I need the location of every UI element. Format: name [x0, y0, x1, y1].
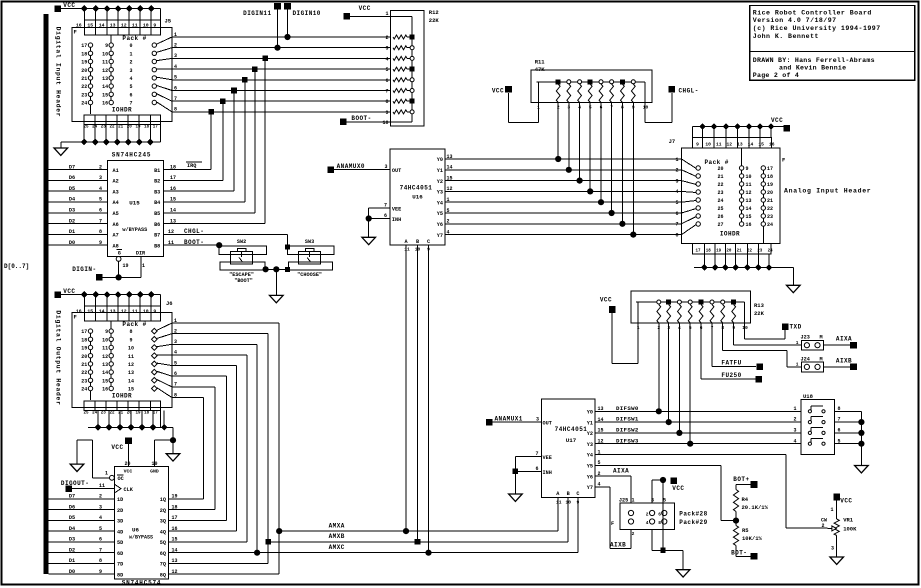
jumper J24 AIXB — [796, 356, 851, 372]
svg-text:13: 13 — [128, 370, 134, 376]
node DIGIN- enable — [72, 257, 145, 281]
svg-text:3: 3 — [129, 68, 132, 74]
svg-text:24: 24 — [92, 411, 98, 415]
svg-text:1: 1 — [796, 340, 799, 346]
svg-text:1: 1 — [830, 507, 833, 513]
svg-text:SN74HC245: SN74HC245 — [112, 152, 152, 159]
svg-text:2: 2 — [99, 164, 102, 170]
wire AMXA bus — [276, 522, 558, 534]
svg-text:D5: D5 — [69, 186, 75, 192]
svg-text:16: 16 — [769, 141, 775, 147]
svg-text:and Kevin Bennie: and Kevin Bennie — [779, 64, 846, 71]
wire U17 VEE/INH to ground — [513, 451, 542, 494]
svg-text:VCC: VCC — [492, 88, 504, 95]
node DIGIN11 — [243, 3, 281, 51]
svg-text:B: B — [416, 239, 419, 245]
svg-text:23: 23 — [81, 92, 87, 98]
svg-text:17: 17 — [767, 166, 773, 172]
svg-text:3Q: 3Q — [160, 519, 166, 525]
svg-text:6: 6 — [385, 78, 388, 84]
svg-text:10: 10 — [643, 105, 649, 111]
wire R13 pin8 to J24 — [723, 323, 802, 367]
svg-text:20: 20 — [717, 166, 723, 172]
svg-text:11: 11 — [132, 308, 138, 314]
svg-text:Digital Output Header: Digital Output Header — [55, 310, 62, 405]
wire R13 pin9 to J23 — [734, 323, 802, 345]
svg-text:10: 10 — [143, 308, 149, 314]
svg-text:22K: 22K — [429, 17, 440, 24]
svg-text:D[0..7]: D[0..7] — [4, 263, 29, 270]
wire U17 Y6 AIXA to J25 — [595, 467, 631, 503]
svg-text:2Q: 2Q — [160, 508, 166, 514]
svg-text:2D: 2D — [117, 508, 123, 514]
svg-text:D7: D7 — [69, 494, 75, 500]
node DIGIN10 — [284, 3, 321, 40]
svg-text:1: 1 — [129, 51, 132, 57]
svg-text:19: 19 — [172, 494, 178, 500]
svg-text:47K: 47K — [535, 66, 546, 73]
svg-text:10: 10 — [746, 174, 752, 180]
svg-text:5Q: 5Q — [160, 540, 166, 546]
node TXD — [744, 323, 801, 339]
svg-text:20: 20 — [726, 250, 732, 254]
svg-text:19: 19 — [135, 411, 141, 415]
svg-text:B2: B2 — [154, 179, 160, 185]
wire J7 bottom pins to ground — [694, 254, 794, 285]
svg-text:Y3: Y3 — [587, 442, 593, 448]
svg-text:14: 14 — [99, 22, 105, 28]
svg-text:16: 16 — [102, 387, 108, 393]
svg-text:U18: U18 — [803, 393, 814, 400]
svg-text:B8: B8 — [154, 243, 160, 249]
svg-text:16: 16 — [746, 222, 752, 228]
svg-text:24: 24 — [717, 198, 723, 204]
svg-text:IRQ: IRQ — [187, 163, 196, 169]
label Analog Input Header — [784, 187, 871, 194]
svg-text:16: 16 — [172, 526, 178, 532]
svg-text:G: G — [118, 250, 121, 256]
svg-text:J23: J23 — [801, 335, 810, 341]
connector J5 digital input header — [72, 18, 177, 130]
svg-text:OC: OC — [118, 476, 124, 482]
wire R11 pull-ups to analog lines — [555, 103, 636, 238]
svg-text:6: 6 — [675, 211, 678, 217]
connector J7 analog input header — [669, 138, 786, 255]
svg-text:14: 14 — [102, 370, 108, 376]
svg-text:AMXA: AMXA — [329, 522, 345, 529]
svg-text:3: 3 — [831, 546, 834, 552]
svg-text:R5: R5 — [742, 527, 749, 534]
svg-text:J7: J7 — [669, 138, 676, 145]
svg-text:23: 23 — [81, 378, 87, 384]
svg-text:D5: D5 — [69, 515, 75, 521]
svg-text:20: 20 — [81, 68, 87, 74]
svg-text:15: 15 — [172, 537, 178, 543]
label AMXC bus — [254, 544, 432, 556]
ground (U16) — [362, 237, 376, 244]
svg-text:10: 10 — [382, 120, 388, 126]
svg-text:U15: U15 — [129, 200, 140, 207]
svg-text:13: 13 — [102, 76, 108, 82]
svg-text:10: 10 — [102, 51, 108, 57]
svg-text:Y0: Y0 — [587, 410, 593, 416]
svg-text:B1: B1 — [154, 168, 160, 174]
svg-text:U16: U16 — [412, 194, 423, 201]
svg-text:U6: U6 — [132, 526, 139, 533]
svg-text:AMXC: AMXC — [329, 544, 345, 551]
power VCC (R11) — [492, 86, 539, 123]
svg-text:18: 18 — [81, 337, 87, 343]
svg-text:Version 4.0 7/18/97: Version 4.0 7/18/97 — [753, 17, 837, 24]
svg-text:18: 18 — [767, 174, 773, 180]
svg-text:5: 5 — [99, 197, 102, 203]
svg-text:11: 11 — [132, 22, 138, 28]
resistor R4 20.1K/1% — [733, 490, 769, 526]
svg-text:VCC: VCC — [840, 498, 852, 505]
svg-text:DIGIN11: DIGIN11 — [243, 10, 271, 17]
svg-text:19: 19 — [81, 60, 87, 66]
svg-text:3D: 3D — [117, 519, 123, 525]
svg-text:VEE: VEE — [543, 455, 552, 461]
IC U17 74HC4051 — [541, 399, 603, 505]
svg-text:4: 4 — [675, 189, 678, 195]
wire U6 GND pin — [155, 440, 173, 467]
svg-text:Y3: Y3 — [437, 190, 443, 196]
wire J5 bottom pins to ground — [61, 125, 161, 148]
svg-text:23: 23 — [717, 190, 723, 196]
svg-text:8: 8 — [99, 558, 102, 564]
svg-text:ANAMUX0: ANAMUX0 — [337, 163, 365, 170]
power VCC (J5 pull-up rail) — [55, 2, 76, 12]
power VCC (J6 rail) — [55, 288, 76, 298]
svg-text:BOT+: BOT+ — [733, 476, 749, 483]
svg-text:J6: J6 — [166, 300, 173, 307]
svg-text:20: 20 — [767, 190, 773, 196]
ground (U17) — [509, 494, 523, 501]
svg-text:DIGOUT-: DIGOUT- — [61, 480, 89, 487]
svg-text:R11: R11 — [535, 58, 546, 65]
svg-text:4: 4 — [129, 76, 132, 82]
wire D bus to U6 inputs — [49, 494, 115, 575]
switch U18 DIP — [793, 393, 864, 466]
svg-text:1: 1 — [675, 157, 678, 163]
svg-text:8: 8 — [385, 99, 388, 105]
svg-text:7D: 7D — [117, 562, 123, 568]
svg-text:C: C — [427, 239, 430, 245]
wire J6 bottom pins to ground rail — [88, 411, 176, 454]
svg-text:A5: A5 — [113, 211, 119, 217]
svg-text:John K. Bennett: John K. Bennett — [753, 33, 819, 40]
wire U16 address A B C — [406, 245, 429, 553]
svg-text:9: 9 — [105, 43, 108, 49]
svg-text:5: 5 — [675, 200, 678, 206]
svg-text:19: 19 — [716, 250, 722, 254]
svg-text:Y7: Y7 — [437, 233, 443, 239]
wire U6 OC to ground — [77, 440, 114, 480]
svg-text:13: 13 — [737, 141, 743, 147]
svg-text:22: 22 — [717, 182, 723, 188]
wire VCC rail to J5 top pins — [61, 5, 160, 20]
svg-text:22: 22 — [747, 250, 753, 254]
svg-text:23: 23 — [101, 411, 107, 415]
switch SW2 ESCAPE/BOOT — [219, 239, 267, 284]
wire J5 pins 1-8 to R12 — [172, 37, 391, 112]
svg-text:12: 12 — [172, 569, 178, 575]
svg-text:6: 6 — [658, 512, 661, 518]
svg-text:VCC: VCC — [63, 288, 75, 295]
svg-text:INH: INH — [392, 217, 401, 223]
svg-text:27: 27 — [717, 222, 723, 228]
svg-text:F: F — [611, 521, 614, 527]
svg-text:6: 6 — [384, 213, 387, 219]
wire J25 to ground — [652, 480, 683, 570]
svg-text:11: 11 — [99, 483, 105, 489]
svg-text:9: 9 — [385, 110, 388, 116]
svg-text:18: 18 — [170, 164, 176, 170]
wire AMXB bus — [265, 533, 568, 544]
svg-text:9: 9 — [153, 308, 156, 314]
resistor R5 10K/1% — [733, 526, 762, 557]
svg-text:A7: A7 — [113, 233, 119, 239]
svg-text:Y6: Y6 — [587, 474, 593, 480]
node FU250 — [701, 323, 762, 382]
label IRQ — [186, 162, 202, 169]
svg-text:6D: 6D — [117, 551, 123, 557]
svg-text:3: 3 — [384, 164, 387, 170]
svg-text:D4: D4 — [69, 526, 75, 532]
wire U17 Y5 to BOT divider — [595, 465, 736, 520]
svg-text:4Q: 4Q — [160, 529, 166, 535]
svg-text:Pack #: Pack # — [705, 159, 729, 166]
svg-text:AIXA: AIXA — [836, 336, 852, 343]
svg-text:14: 14 — [99, 308, 105, 314]
svg-text:M: M — [820, 356, 823, 362]
svg-text:VCC: VCC — [359, 5, 371, 12]
connector J25 — [611, 497, 708, 537]
svg-text:12: 12 — [121, 22, 127, 28]
ground (J5) — [54, 148, 68, 155]
svg-text:22: 22 — [81, 370, 87, 376]
svg-text:21: 21 — [118, 125, 124, 129]
connector J6 digital output header — [72, 300, 177, 415]
svg-text:10: 10 — [102, 337, 108, 343]
node BOOT- (R12) — [340, 115, 391, 125]
svg-text:3: 3 — [385, 46, 388, 52]
svg-text:12: 12 — [121, 308, 127, 314]
svg-text:1: 1 — [631, 497, 634, 503]
svg-text:VCC: VCC — [771, 117, 783, 124]
wire VCC rail to J7 top pins — [693, 123, 784, 137]
resistor pack R12 22K — [382, 9, 439, 126]
svg-text:17: 17 — [153, 125, 159, 129]
svg-text:VCC: VCC — [600, 297, 612, 304]
node ANAMUX1 — [486, 415, 542, 425]
svg-text:14: 14 — [746, 206, 752, 212]
svg-text:VCC: VCC — [672, 485, 684, 492]
svg-text:74HC4051: 74HC4051 — [555, 426, 588, 433]
svg-text:15: 15 — [87, 22, 93, 28]
svg-text:9: 9 — [746, 166, 749, 172]
svg-text:Pack#29: Pack#29 — [679, 519, 707, 526]
svg-text:D6: D6 — [69, 175, 75, 181]
wire U6 outputs to J6 pins / AMX bus — [168, 323, 578, 575]
svg-text:18: 18 — [144, 411, 150, 415]
svg-text:Y2: Y2 — [587, 431, 593, 437]
svg-text:24: 24 — [768, 250, 774, 254]
svg-text:Digital Input Header: Digital Input Header — [55, 27, 62, 118]
ground (J7) — [787, 285, 801, 292]
svg-text:BOOT-: BOOT- — [351, 115, 371, 122]
svg-text:D1: D1 — [69, 229, 75, 235]
svg-text:74HC4051: 74HC4051 — [400, 184, 433, 191]
svg-text:FATFU: FATFU — [721, 360, 741, 367]
wire U15 outputs B1-B6 to J5 pins 8-3 — [164, 58, 266, 224]
svg-text:w/BYPASS: w/BYPASS — [129, 534, 153, 540]
svg-text:20.1K/1%: 20.1K/1% — [742, 504, 769, 511]
svg-text:7: 7 — [384, 202, 387, 208]
svg-text:12: 12 — [128, 362, 134, 368]
svg-text:Y0: Y0 — [437, 157, 443, 163]
svg-text:5: 5 — [99, 526, 102, 532]
node FATFU — [712, 323, 763, 370]
svg-text:DIGIN-: DIGIN- — [72, 266, 96, 273]
svg-text:INH: INH — [543, 470, 552, 476]
svg-text:13: 13 — [102, 362, 108, 368]
svg-text:13: 13 — [170, 218, 176, 224]
svg-text:AIXB: AIXB — [610, 541, 626, 548]
svg-text:11: 11 — [404, 247, 410, 253]
svg-text:14: 14 — [172, 547, 178, 553]
ground (U18) — [855, 466, 869, 473]
svg-text:AIXB: AIXB — [836, 357, 852, 364]
svg-text:18: 18 — [706, 250, 712, 254]
svg-text:SN74HC574: SN74HC574 — [122, 579, 162, 586]
svg-text:6: 6 — [129, 92, 132, 98]
svg-text:VCC: VCC — [124, 469, 133, 475]
svg-text:15: 15 — [758, 141, 764, 147]
svg-text:12: 12 — [746, 190, 752, 196]
svg-text:Y4: Y4 — [587, 453, 593, 459]
svg-text:15: 15 — [87, 308, 93, 314]
svg-text:11: 11 — [556, 499, 562, 505]
svg-text:Pack #: Pack # — [122, 321, 146, 328]
svg-text:10: 10 — [742, 325, 748, 331]
svg-text:J25: J25 — [619, 497, 628, 503]
svg-text:2: 2 — [99, 494, 102, 500]
svg-text:10: 10 — [143, 22, 149, 28]
svg-text:20: 20 — [81, 354, 87, 360]
data bus D[0..7] — [4, 14, 49, 574]
svg-text:7Q: 7Q — [160, 562, 166, 568]
svg-text:Y5: Y5 — [437, 211, 443, 217]
svg-text:1: 1 — [793, 406, 796, 412]
node DIGOUT- clock — [61, 480, 115, 492]
node BOT+ — [733, 476, 757, 490]
svg-text:17: 17 — [81, 329, 87, 335]
svg-text:M: M — [820, 335, 823, 341]
svg-text:4: 4 — [99, 515, 102, 521]
svg-text:7: 7 — [675, 222, 678, 228]
svg-text:DIFSW1: DIFSW1 — [616, 416, 639, 423]
wire R13 pull-ups to DIFSW lines — [656, 323, 694, 447]
svg-text:B: B — [567, 491, 570, 497]
wire U16 VEE/INH to ground — [366, 202, 390, 237]
svg-text:3: 3 — [99, 175, 102, 181]
svg-text:24: 24 — [81, 101, 87, 107]
svg-text:F: F — [74, 29, 77, 36]
svg-text:25: 25 — [717, 206, 723, 212]
svg-text:21: 21 — [118, 411, 124, 415]
svg-text:VR1: VR1 — [843, 517, 854, 524]
svg-text:D0: D0 — [69, 240, 75, 246]
svg-text:4: 4 — [99, 186, 102, 192]
wire switch commons to ground — [263, 266, 291, 295]
svg-text:15: 15 — [102, 92, 108, 98]
svg-text:D7: D7 — [69, 164, 75, 170]
wire U17 Y0-Y3 DIFSW lines to U18 — [595, 405, 801, 444]
svg-text:20: 20 — [127, 125, 133, 129]
svg-text:5: 5 — [129, 84, 132, 90]
node BOT- — [731, 549, 757, 559]
node junctions J5 wires — [208, 56, 268, 115]
svg-text:IOHDR: IOHDR — [112, 392, 132, 399]
svg-text:2: 2 — [793, 417, 796, 423]
svg-text:5D: 5D — [117, 540, 123, 546]
svg-text:B7: B7 — [154, 233, 160, 239]
svg-text:15: 15 — [746, 214, 752, 220]
svg-text:0: 0 — [129, 43, 132, 49]
svg-text:26: 26 — [717, 214, 723, 220]
ground (J25) — [676, 570, 690, 577]
svg-text:2: 2 — [129, 60, 132, 66]
wire D bus to U15 inputs — [49, 164, 108, 246]
resistor pack R13 22K — [631, 291, 765, 331]
svg-text:R4: R4 — [742, 496, 749, 503]
power VCC (J25) — [652, 477, 684, 503]
svg-text:24: 24 — [767, 222, 773, 228]
jumper J23 AIXA — [796, 335, 851, 350]
svg-text:8: 8 — [99, 229, 102, 235]
svg-text:13: 13 — [172, 558, 178, 564]
ground (VR1) — [830, 557, 844, 564]
svg-text:D3: D3 — [69, 208, 75, 214]
svg-text:4: 4 — [385, 56, 388, 62]
svg-text:Y7: Y7 — [587, 485, 593, 491]
svg-text:Pack #: Pack # — [122, 35, 146, 42]
svg-text:3: 3 — [793, 428, 796, 434]
node AIXB terminal — [836, 357, 857, 370]
svg-text:18: 18 — [172, 504, 178, 510]
svg-text:6: 6 — [99, 537, 102, 543]
resistor pack R11 47K — [531, 58, 652, 110]
IC U6 SN74HC574 — [115, 461, 169, 586]
svg-text:Y4: Y4 — [437, 200, 443, 206]
svg-text:22: 22 — [109, 411, 115, 415]
title block — [750, 6, 915, 81]
ground (switches) — [270, 295, 284, 302]
svg-text:17: 17 — [695, 250, 701, 254]
svg-text:SW3: SW3 — [305, 239, 314, 245]
wire CHGL- net — [164, 228, 288, 246]
svg-text:9: 9 — [105, 329, 108, 335]
svg-text:3: 3 — [536, 416, 539, 422]
wire U17 address A B C to AMX bus — [558, 498, 578, 553]
svg-text:17: 17 — [153, 411, 159, 415]
svg-text:15: 15 — [170, 197, 176, 203]
svg-text:1: 1 — [142, 263, 145, 269]
svg-text:16: 16 — [102, 101, 108, 107]
svg-text:DRAWN BY: Hans Ferrell-Abrams: DRAWN BY: Hans Ferrell-Abrams — [753, 57, 875, 64]
